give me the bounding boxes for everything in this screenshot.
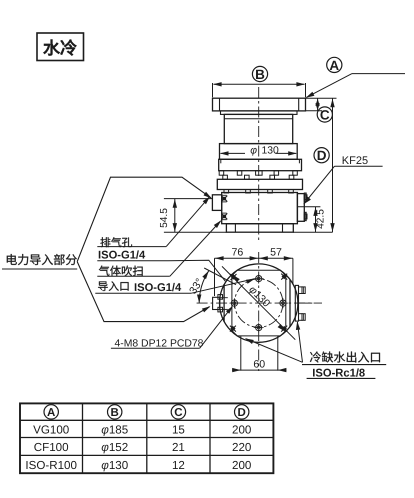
svg-text:C: C	[320, 107, 330, 122]
svg-text:21: 21	[172, 441, 185, 454]
bolt circle (dash-dot)	[235, 279, 283, 327]
svg-text:ISO-R100: ISO-R100	[25, 459, 77, 472]
centerline (side view)	[258, 87, 260, 240]
corner screws (X marks)	[231, 274, 237, 280]
svg-text:42.5: 42.5	[316, 209, 327, 229]
svg-text:VG100: VG100	[33, 423, 69, 436]
svg-text:D: D	[317, 148, 327, 163]
skirt with phi130	[220, 144, 298, 160]
balloon polygon	[77, 177, 211, 261]
42.5 dimension	[293, 231, 332, 233]
60 dimension	[240, 336, 242, 371]
svg-text:KF25: KF25	[342, 155, 368, 167]
33 degree dimension	[204, 268, 236, 285]
bottom-view right connector (cooling water)	[295, 285, 298, 321]
bottom view outer circle	[220, 264, 298, 342]
svg-text:φ185: φ185	[101, 423, 128, 436]
right port (KF25)	[297, 194, 304, 222]
导入口 ISO-G1/4 label	[98, 281, 128, 291]
specification table	[20, 419, 273, 421]
C dimension	[306, 97, 337, 99]
svg-text:ISO-G1/4: ISO-G1/4	[134, 282, 182, 294]
plate 2	[217, 179, 302, 189]
svg-text:φ152: φ152	[101, 441, 128, 454]
D dimension line	[332, 98, 334, 232]
centerlines (bottom view)	[258, 252, 260, 371]
排气孔 label	[100, 237, 132, 247]
svg-text:B: B	[255, 67, 265, 82]
bottom-view left flange (power feedthrough)	[213, 297, 220, 309]
冷缺水出入口 label	[310, 351, 380, 362]
svg-text:57: 57	[270, 247, 282, 259]
bolt row 1	[219, 171, 224, 176]
octagonal plate	[232, 270, 286, 336]
bolt row 3	[224, 190, 229, 194]
svg-text:A: A	[329, 58, 339, 73]
A label leader	[327, 57, 342, 72]
svg-text:60: 60	[253, 359, 265, 371]
54.5 dimension	[164, 198, 213, 200]
bolt row 2	[223, 175, 228, 179]
svg-text:D: D	[238, 407, 246, 419]
svg-text:130: 130	[262, 146, 280, 157]
svg-text:15: 15	[172, 423, 185, 436]
svg-text:220: 220	[232, 441, 251, 454]
left port block	[212, 195, 221, 211]
svg-text:φ130: φ130	[101, 459, 128, 472]
right flat	[289, 280, 291, 328]
base	[226, 224, 293, 233]
svg-text:54.5: 54.5	[159, 208, 170, 228]
svg-text:B: B	[111, 407, 119, 419]
left flat	[223, 284, 225, 322]
svg-text:ISO-G1/4: ISO-G1/4	[98, 249, 146, 261]
top flange	[213, 98, 306, 111]
电力导入部分 label	[7, 254, 77, 265]
neck band	[221, 111, 298, 115]
svg-text:200: 200	[232, 423, 251, 436]
svg-text:φ: φ	[250, 146, 257, 157]
side view: B dimension	[252, 66, 267, 81]
svg-text:A: A	[47, 407, 55, 419]
水冷 label box	[37, 33, 84, 61]
svg-text:ISO-Rc1/8: ISO-Rc1/8	[312, 367, 365, 379]
left port bolts (dark)	[221, 196, 227, 202]
svg-text:200: 200	[232, 459, 251, 472]
76 / 57 dimensions	[215, 257, 293, 259]
M8 holes	[256, 276, 262, 282]
plate 1	[219, 159, 302, 170]
table header circled letters	[44, 405, 58, 419]
svg-text:CF100: CF100	[34, 441, 69, 454]
phi130 diagonal dimension	[222, 266, 295, 339]
气体吹扫 label	[99, 266, 143, 276]
cylinder	[224, 114, 292, 143]
svg-text:C: C	[174, 407, 182, 419]
pump body	[222, 193, 298, 224]
svg-text:4-M8 DP12 PCD78: 4-M8 DP12 PCD78	[115, 338, 204, 349]
svg-text:76: 76	[232, 247, 244, 259]
svg-text:12: 12	[172, 459, 185, 472]
